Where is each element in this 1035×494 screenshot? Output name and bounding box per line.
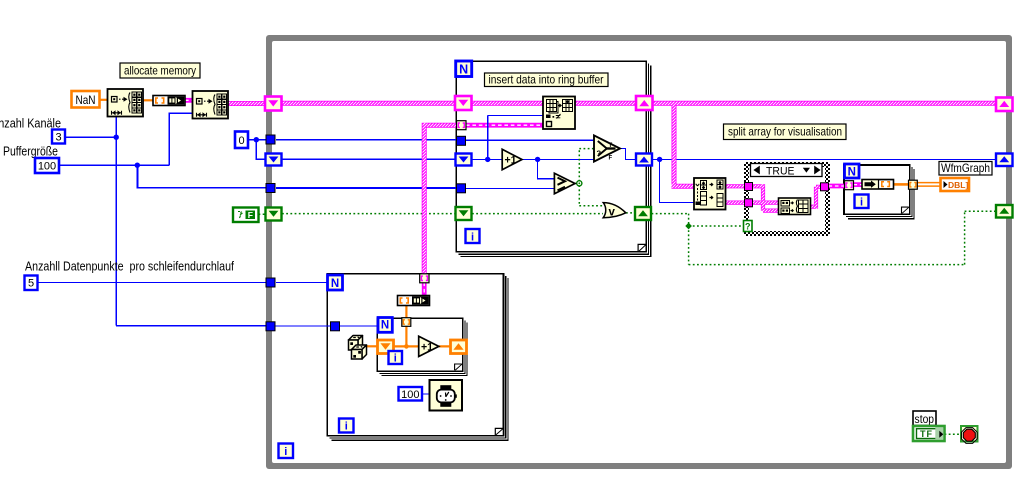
svg-text:TRUE: TRUE	[766, 165, 795, 177]
svg-text:i: i	[345, 421, 348, 433]
svg-text:i: i	[394, 353, 397, 365]
svg-text:i: i	[860, 196, 863, 208]
svg-text:split array for visualisation: split array for visualisation	[728, 125, 842, 139]
svg-text:WfmGraph: WfmGraph	[941, 161, 990, 175]
svg-text:Puffergröße: Puffergröße	[3, 145, 58, 159]
svg-text:v: v	[609, 207, 616, 219]
svg-text:100: 100	[401, 389, 419, 401]
svg-text:Anzahll Datenpunkte pro schle: Anzahll Datenpunkte pro schleifendurchla…	[25, 260, 234, 274]
svg-text:?: ?	[745, 222, 751, 232]
svg-text:+1: +1	[505, 155, 517, 167]
svg-text:allocate memory: allocate memory	[124, 64, 196, 78]
svg-text:?: ?	[597, 149, 602, 158]
svg-text:DBL]: DBL]	[948, 180, 968, 190]
svg-text:NaN: NaN	[76, 93, 96, 107]
svg-text:N: N	[331, 278, 339, 290]
svg-text:0: 0	[238, 135, 244, 147]
svg-text:N: N	[459, 63, 468, 77]
svg-text:N: N	[381, 320, 389, 332]
svg-text:TF: TF	[920, 429, 933, 439]
svg-text:stop: stop	[915, 412, 935, 426]
svg-text:5: 5	[28, 278, 34, 290]
svg-text:T: T	[609, 143, 613, 149]
svg-text:F: F	[248, 210, 253, 220]
svg-text:+1: +1	[421, 342, 433, 354]
svg-text:3: 3	[55, 132, 61, 144]
svg-text:N: N	[848, 166, 856, 178]
svg-text:i: i	[284, 446, 287, 458]
svg-text:100: 100	[38, 161, 56, 173]
svg-text:insert data into ring buffer: insert data into ring buffer	[489, 73, 604, 87]
svg-text:F: F	[609, 156, 613, 162]
svg-text:i: i	[471, 231, 474, 243]
